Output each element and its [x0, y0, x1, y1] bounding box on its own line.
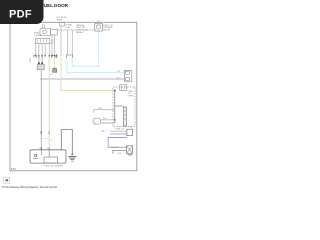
wire olive stub [54, 57, 56, 69]
svg-text:PDF: PDF [9, 9, 32, 21]
PDF badge [0, 0, 44, 24]
connector row bracket [67, 55, 73, 58]
node [111, 147, 112, 148]
wire pink stub [38, 57, 40, 63]
ground G1 [68, 155, 76, 157]
wire cyan A from relay [72, 31, 98, 66]
fuel lid opener box [30, 150, 66, 163]
wire blue lower [110, 133, 127, 135]
wire [38, 44, 40, 56]
wire [51, 35, 53, 56]
diagram border frame [10, 22, 137, 171]
svg-text:1: 1 [50, 145, 52, 147]
wire cyan B [67, 58, 125, 73]
switch S2 [51, 29, 58, 35]
node [117, 147, 118, 148]
fuse F1 [60, 23, 65, 26]
wire blue bracket [108, 138, 127, 148]
svg-text:L-W: L-W [116, 71, 120, 73]
connector inline oval [93, 118, 101, 124]
ground wire loop [61, 130, 72, 154]
svg-text:B: B [93, 111, 95, 113]
wire gray input [93, 109, 115, 111]
wire olive long [61, 58, 115, 91]
wire stub [56, 54, 58, 58]
svg-text:RELAY: RELAY [103, 29, 111, 32]
wire blue module [101, 122, 115, 124]
green wire tick [48, 131, 50, 134]
wire terminal caps [35, 55, 57, 56]
node olive [114, 90, 116, 92]
node [114, 147, 115, 148]
module M1 dashed box [113, 87, 135, 127]
svg-text:FUEL LID: FUEL LID [116, 128, 125, 130]
wire [41, 44, 43, 56]
module internal wire [115, 105, 124, 107]
connector tick [72, 154, 74, 155]
switch S1 [40, 29, 51, 36]
wire inside box [40, 150, 42, 155]
svg-text:HOT AT ALL: HOT AT ALL [57, 16, 67, 19]
svg-text:PANEL): PANEL) [76, 31, 84, 34]
module internal wire [114, 91, 116, 124]
relay U1 [95, 23, 103, 31]
wire [42, 24, 44, 29]
wire bus to relay [57, 29, 95, 31]
connector row bracket [34, 55, 37, 58]
connector C4 two pin [124, 70, 131, 82]
wire navy vertical [40, 70, 42, 150]
connector C3 [37, 65, 44, 70]
svg-text:R-B 4: R-B 4 [101, 131, 106, 133]
wire [44, 24, 46, 29]
svg-text:5-55: 5-55 [11, 169, 16, 171]
svg-text:16: 16 [50, 74, 52, 76]
svg-text:12: 12 [94, 123, 96, 125]
wire violet stub [41, 57, 43, 63]
connector terminal T1 [52, 68, 57, 72]
wire black lower [113, 150, 127, 154]
svg-text:TIMES: TIMES [57, 20, 64, 22]
svg-text:Trunk Release Wiring Diagram,: Trunk Release Wiring Diagram, Except Hyb… [2, 185, 57, 189]
node pink [38, 62, 40, 64]
wire navy horizontal [41, 78, 124, 80]
svg-text:W-B: W-B [118, 153, 122, 155]
svg-text:A 21: A 21 [51, 42, 56, 45]
mechanical link dashed [41, 138, 49, 140]
connector row bracket [52, 55, 56, 58]
connector label left [30, 58, 31, 63]
svg-text:7.5A: 7.5A [65, 26, 70, 29]
actuator A1 [123, 107, 126, 126]
wire pink module [101, 119, 115, 121]
svg-text:G: G [50, 140, 52, 142]
ground hatch [127, 153, 133, 155]
node [114, 119, 115, 120]
svg-text:OPEN: OPEN [128, 96, 134, 98]
svg-text:B: B [130, 127, 132, 129]
wire inside box [48, 150, 50, 157]
wire [35, 44, 37, 56]
connector B1 [127, 129, 133, 136]
wire green vertical [48, 57, 50, 150]
green wire tick lower [48, 147, 50, 150]
svg-text:FUEL DOOR: FUEL DOOR [41, 3, 69, 8]
node violet [41, 62, 43, 64]
navy wire tick [40, 131, 42, 134]
connector block CB1 [36, 38, 50, 43]
wire [48, 44, 50, 56]
wire [66, 30, 68, 55]
svg-text:FUEL LID OPENER: FUEL LID OPENER [44, 165, 64, 167]
wire from fuse [60, 26, 62, 56]
navy wire tick lower [40, 147, 42, 150]
wire [44, 44, 46, 56]
thumbnail icon [4, 177, 10, 183]
wire [54, 35, 56, 56]
module pin connector [120, 85, 127, 91]
splice box X [127, 146, 133, 154]
wire [71, 30, 73, 55]
inner box [44, 157, 58, 163]
coil symbol [34, 154, 37, 157]
wire red lower [110, 130, 127, 132]
node navy junction [41, 78, 43, 80]
